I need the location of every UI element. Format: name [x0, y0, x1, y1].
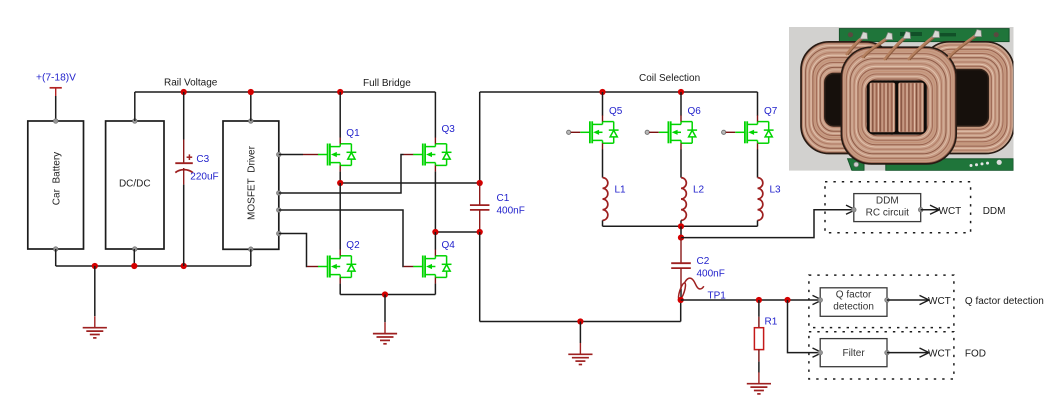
node rail-dcdc — [131, 263, 137, 269]
wire Q2 drain — [339, 183, 341, 250]
capacitor C3 — [175, 92, 193, 266]
svg-text:RC circuit: RC circuit — [866, 207, 910, 218]
label Q6 — [688, 106, 702, 117]
capacitor C2 — [671, 238, 691, 300]
pin dot filter out — [885, 350, 890, 355]
arrow into Filter box — [813, 348, 823, 357]
arrow into DDM box — [846, 205, 856, 214]
node rail-gnd1 — [92, 263, 98, 269]
wire Q7 drain — [757, 92, 759, 116]
pin dot filter in — [818, 350, 823, 355]
value 220uF — [190, 172, 218, 183]
svg-text:DC/DC: DC/DC — [119, 179, 151, 190]
wire coil rail to ddm node — [680, 226, 682, 237]
wire TP1 line — [681, 299, 821, 301]
pin circle Q6 gate — [645, 130, 649, 134]
node rail-Q5 — [599, 89, 605, 95]
label C1 — [497, 193, 510, 204]
arrow DDM WCT — [930, 205, 940, 214]
label Q4 — [442, 240, 456, 251]
svg-text:400nF: 400nF — [697, 268, 725, 279]
node filter branch — [784, 297, 790, 303]
value C2 400nF — [697, 268, 725, 279]
svg-text:DDM: DDM — [876, 195, 899, 206]
node C1 bottom — [477, 229, 483, 235]
wire Q6 source — [680, 149, 682, 177]
svg-text:WCT: WCT — [939, 206, 962, 217]
svg-text:Q factor: Q factor — [836, 290, 872, 301]
wire dcdc top — [134, 92, 136, 121]
label Full Bridge — [363, 78, 411, 89]
wire C1 bottom vertical — [479, 232, 481, 322]
label Rail Voltage — [164, 78, 218, 89]
wire filter branch — [788, 300, 821, 353]
node A left — [337, 180, 343, 186]
node bus gnd — [577, 318, 583, 324]
svg-text:L1: L1 — [615, 184, 627, 195]
transistor Q5 — [580, 115, 618, 149]
node rail-C3 — [181, 89, 187, 95]
label Q2 — [346, 240, 360, 251]
wire L2 bottom — [680, 220, 682, 226]
inductor L3 — [758, 178, 763, 221]
svg-text:detection: detection — [833, 302, 874, 313]
wire gnd stub bridge — [384, 295, 386, 323]
block MOSFET Driver — [223, 121, 279, 249]
label Q7 — [764, 106, 778, 117]
wire Q7 source — [757, 149, 759, 177]
label R1 — [765, 317, 778, 328]
svg-text:C3: C3 — [196, 154, 209, 165]
wire gnd stub left — [94, 266, 96, 316]
wire bus up to TP1 — [680, 300, 682, 322]
label WCT ddm — [939, 206, 962, 217]
wire Q4 source — [434, 284, 436, 295]
wire pin4 to Q2 gate — [279, 234, 318, 267]
block Car Battery — [28, 121, 84, 249]
ground G3 — [568, 343, 592, 365]
wire Q5 source — [602, 149, 604, 177]
transistor Q1 — [318, 138, 356, 172]
label Coil Selection — [639, 73, 700, 84]
block DC/DC — [106, 121, 164, 249]
svg-text:Filter: Filter — [842, 348, 865, 359]
dashed box FOD — [809, 332, 954, 379]
wire node A — [340, 182, 480, 184]
ground G1 — [83, 316, 107, 338]
wire Q6 gate stub — [649, 131, 659, 133]
testpoint TP1 probe — [677, 278, 704, 300]
label L1 — [615, 184, 627, 195]
pin dot dcdc top — [133, 119, 138, 124]
node rail-driver — [248, 89, 254, 95]
wire Q7 gate stub — [726, 131, 736, 133]
wire Q1 drain — [339, 92, 341, 138]
pin circle Q7 gate — [722, 130, 726, 134]
svg-text:220uF: 220uF — [190, 172, 218, 183]
svg-text:Q3: Q3 — [442, 124, 456, 135]
wire Q4 drain — [434, 232, 436, 250]
dashed box DDM — [825, 182, 971, 233]
label L3 — [770, 184, 782, 195]
wire coil bottom rail — [603, 225, 758, 227]
svg-text:Q7: Q7 — [764, 106, 778, 117]
svg-text:+(7-18)V: +(7-18)V — [36, 73, 76, 84]
block Filter — [820, 339, 887, 367]
svg-text:L3: L3 — [770, 184, 782, 195]
wire DDM out — [921, 209, 940, 211]
svg-text:400nF: 400nF — [497, 206, 525, 217]
wire C1 top vertical — [479, 92, 481, 183]
transistor Q7 — [735, 115, 773, 149]
wire Q2 source — [339, 284, 341, 295]
svg-text:C2: C2 — [697, 256, 710, 267]
label FOD outside — [965, 349, 986, 360]
svg-text:L2: L2 — [693, 184, 705, 195]
wire power to battery — [55, 96, 57, 121]
svg-text:Full Bridge: Full Bridge — [363, 78, 411, 89]
label WCT fod — [928, 349, 951, 360]
svg-text:Q4: Q4 — [442, 240, 456, 251]
wire top rail — [135, 91, 436, 93]
pin dot driver out2 — [277, 191, 282, 196]
pin dot qf in — [818, 298, 823, 303]
pin dot driver out1 — [277, 152, 282, 157]
wire driver top — [250, 92, 252, 121]
label Q5 — [609, 106, 623, 117]
node TP1 — [678, 297, 684, 303]
wire Q1 source to node A — [339, 172, 341, 183]
pin dot DDM out — [918, 207, 923, 212]
label Q factor detection outside — [965, 296, 1044, 307]
label Q1 — [346, 128, 360, 139]
transistor Q6 — [659, 115, 697, 149]
pin dot DDM in — [852, 207, 857, 212]
pin dot battery top — [53, 119, 58, 124]
value C1 400nF — [497, 206, 525, 217]
wire dcdc bottom — [133, 249, 135, 266]
inductor L2 — [681, 178, 686, 221]
label L2 — [693, 184, 705, 195]
wire Q5 drain — [602, 92, 604, 116]
svg-text:Q2: Q2 — [346, 240, 360, 251]
wire pin1 to Q1 gate — [279, 154, 318, 156]
svg-text:Coil Selection: Coil Selection — [639, 73, 700, 84]
svg-text:C1: C1 — [497, 193, 510, 204]
node bridge gnd — [382, 291, 388, 297]
node B left — [432, 229, 438, 235]
svg-text:Q5: Q5 — [609, 106, 623, 117]
label Q3 — [442, 124, 456, 135]
wire filter out — [887, 352, 929, 354]
pin dot driver bottom — [249, 247, 254, 252]
svg-text:WCT: WCT — [928, 349, 951, 360]
resistor R1 — [754, 300, 763, 373]
wire Q3 source to node B — [434, 172, 436, 232]
label TP1 — [708, 291, 727, 302]
power flag +(7-18)V — [36, 73, 76, 97]
wire battery bottom — [55, 249, 57, 266]
svg-text:Rail Voltage: Rail Voltage — [164, 78, 218, 89]
wire pin2 to Q3 gate — [279, 155, 414, 194]
wire to DDM — [681, 210, 854, 238]
wire Q5 gate stub — [571, 131, 581, 133]
pin dot battery bottom — [53, 247, 58, 252]
capacitor C1 — [470, 183, 490, 232]
ground G2 — [373, 322, 397, 344]
svg-text:Q6: Q6 — [688, 106, 702, 117]
pin dot driver top — [249, 119, 254, 124]
arrow filter WCT — [920, 348, 930, 357]
dashed box Q factor — [809, 275, 954, 328]
node rail-Q6 — [678, 89, 684, 95]
wire Q6 drain — [680, 92, 682, 116]
transistor Q3 — [413, 138, 451, 172]
node rail-Q1 — [337, 89, 343, 95]
block Q factor detection — [820, 288, 887, 317]
node C1 top — [477, 180, 483, 186]
svg-text:Q1: Q1 — [346, 128, 360, 139]
wire node B — [435, 231, 479, 233]
wire coil rail — [480, 91, 758, 93]
svg-text:DDM: DDM — [983, 206, 1006, 217]
wire gnd stub bus — [579, 322, 581, 344]
ground G4 — [747, 372, 771, 394]
node ddm tap — [678, 235, 684, 241]
svg-text:Q factor detection: Q factor detection — [965, 296, 1044, 307]
node coil rail — [678, 223, 684, 229]
label DDM outside — [983, 206, 1006, 217]
wire pin3 to Q4 gate — [279, 210, 414, 267]
label C3 — [196, 154, 209, 165]
svg-text:Car Battery: Car Battery — [52, 152, 63, 205]
wire bridge bottom — [340, 294, 435, 296]
pin circle Q5 gate — [567, 130, 571, 134]
wire bottom bus — [480, 321, 681, 323]
pin dot driver out3 — [277, 208, 282, 213]
node rail-C3 bottom — [181, 263, 187, 269]
wire L1 bottom — [602, 220, 604, 226]
transistor Q2 — [318, 250, 356, 284]
label C2 — [697, 256, 710, 267]
arrow into Qfactor box — [813, 295, 823, 304]
label WCT qf — [928, 296, 951, 307]
arrow qf WCT — [920, 295, 930, 304]
wire left ground rail — [56, 249, 251, 266]
wire qf out — [887, 299, 929, 301]
inductor L1 — [603, 178, 608, 221]
pin dot qf out — [885, 298, 890, 303]
wire Q3 drain — [434, 92, 436, 138]
transistor Q4 — [413, 250, 451, 284]
svg-text:MOSFET Driver: MOSFET Driver — [246, 145, 257, 220]
svg-text:WCT: WCT — [928, 296, 951, 307]
block DDM RC circuit — [854, 194, 921, 222]
pin dot driver out4 — [277, 231, 282, 236]
svg-text:FOD: FOD — [965, 349, 986, 360]
svg-text:R1: R1 — [765, 317, 778, 328]
pin dot dcdc bottom — [133, 247, 138, 252]
wire L3 bottom — [757, 220, 759, 226]
node R1 top — [756, 297, 762, 303]
